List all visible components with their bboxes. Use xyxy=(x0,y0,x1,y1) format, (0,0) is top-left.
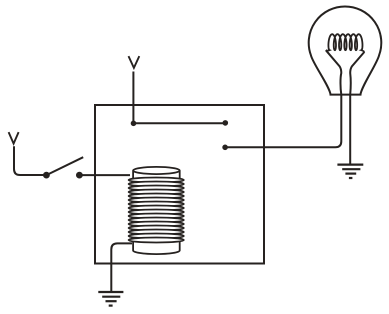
wire: switch to coil xyxy=(79,174,130,176)
label V (left source) xyxy=(9,132,19,144)
node dot1 xyxy=(131,121,137,127)
label V (top source) xyxy=(129,56,140,68)
ground (bottom left) xyxy=(98,292,123,306)
switch throw node xyxy=(76,172,83,179)
node dot3 xyxy=(222,145,228,151)
wire: top V lead into box xyxy=(132,72,134,124)
switch pole node xyxy=(43,172,50,179)
ground (right of lamp) xyxy=(337,165,363,178)
node dot2 xyxy=(223,120,229,126)
lamp filament support left / lead-in wire xyxy=(326,50,342,94)
switch blade (open) xyxy=(46,157,83,175)
lamp bulb outline xyxy=(309,6,382,94)
box: black-box enclosure xyxy=(95,105,264,264)
wire: left V lead to switch xyxy=(14,146,46,175)
lamp right lead to ground xyxy=(349,95,351,165)
wire: dot1 to dot2 xyxy=(134,122,226,124)
wire: coil bottom to ground xyxy=(111,243,132,291)
inductor coil core cylinder xyxy=(133,167,180,254)
wire: dot3 to lamp left lead xyxy=(225,95,341,148)
lamp filament coil xyxy=(326,34,365,52)
inductor winding turns xyxy=(129,178,184,243)
lamp filament support right / lead-in wire xyxy=(350,52,364,95)
